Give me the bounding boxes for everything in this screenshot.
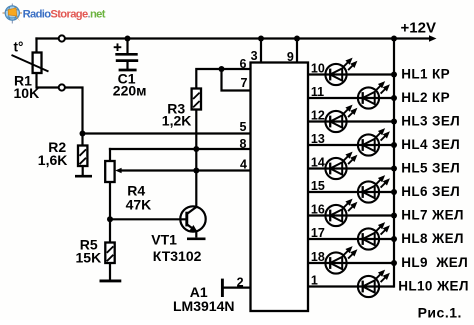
ground for pin 2 <box>221 279 224 297</box>
wire pin 16 row to LED HL7 and +12V bus <box>308 214 394 216</box>
LED HL3 <box>325 106 356 133</box>
LED HL5 <box>325 153 356 180</box>
LED HL1 <box>325 59 356 86</box>
svg-text:16: 16 <box>311 202 325 216</box>
capacitor C1 (polarized) <box>114 43 139 60</box>
svg-text:7: 7 <box>240 76 247 90</box>
node R4-R5 / VT1 base <box>107 216 113 222</box>
node pin 3 / top rail <box>258 36 264 42</box>
svg-text:HL1 КР: HL1 КР <box>401 66 450 81</box>
ground for C1 <box>119 69 137 72</box>
svg-text:15K: 15K <box>76 249 102 265</box>
node pin6-pin7 branch <box>219 66 225 72</box>
node R1-R2 / pin 5 <box>80 131 86 137</box>
svg-text:9: 9 <box>287 50 294 64</box>
node R3 / pin 8 <box>193 146 199 152</box>
junction node on bus row 9 <box>391 260 397 266</box>
ground for R2 <box>75 175 92 178</box>
svg-text:14: 14 <box>311 155 325 169</box>
node C1 / top rail <box>125 36 131 42</box>
junction node on bus row 2 <box>391 95 397 101</box>
svg-text:HL7 ЖЕЛ: HL7 ЖЕЛ <box>401 207 464 222</box>
node R3-VT1 / pin 4 <box>193 168 199 174</box>
svg-text:t°: t° <box>14 40 24 55</box>
ground for VT1 emitter <box>187 237 206 240</box>
LED HL10 <box>358 271 389 298</box>
svg-text:11: 11 <box>311 85 324 99</box>
LED HL6 <box>358 176 389 203</box>
wire pin 11 row to LED HL2 and +12V bus <box>308 97 394 99</box>
wire pin 1 row to LED HL10 and +12V bus <box>308 285 394 287</box>
svg-text:+12V: +12V <box>401 20 436 37</box>
wire +12V LED bus vertical <box>393 39 395 287</box>
svg-text:18: 18 <box>311 250 325 264</box>
svg-text:10: 10 <box>311 61 325 75</box>
svg-text:HL10 ЖЕЛ: HL10 ЖЕЛ <box>398 278 469 293</box>
wire R4 bottom lead to R5 <box>109 182 111 243</box>
junction node on bus row 5 <box>391 166 397 172</box>
junction node on bus row 4 <box>391 142 397 148</box>
LED HL9 <box>325 247 356 274</box>
svg-text:HL6 ЗЕЛ: HL6 ЗЕЛ <box>401 184 460 199</box>
resistor R1 (thermistor) <box>12 53 49 74</box>
svg-text:RadioStorage.net: RadioStorage.net <box>23 8 106 20</box>
svg-text:HL9 ЖЕЛ: HL9 ЖЕЛ <box>401 255 468 270</box>
wire pin 18 row to LED HL9 and +12V bus <box>308 262 394 264</box>
LED HL8 <box>358 223 389 250</box>
svg-text:12: 12 <box>311 108 325 122</box>
wire pin 9 lead <box>296 39 298 63</box>
svg-text:КТ3102: КТ3102 <box>153 248 202 264</box>
wire pin 15 row to LED HL6 and +12V bus <box>308 191 394 193</box>
svg-text:10K: 10K <box>14 85 40 101</box>
terminal (connector) on top rail <box>59 35 65 41</box>
svg-text:47K: 47K <box>126 197 152 213</box>
junction node on bus row 7 <box>391 213 397 219</box>
junction node on bus row 3 <box>391 119 397 125</box>
wire pin 13 row to LED HL4 and +12V bus <box>308 144 394 146</box>
resistor R5 <box>105 243 114 264</box>
wire pin 14 row to LED HL5 and +12V bus <box>308 167 394 169</box>
transistor VT1 (NPN) <box>180 206 205 237</box>
svg-text:17: 17 <box>311 226 325 240</box>
wire pin 4 line to R4 wiper <box>122 169 251 171</box>
junction node on bus row 6 <box>391 189 397 195</box>
svg-text:2: 2 <box>237 275 244 289</box>
wire pin 3 lead <box>260 39 262 63</box>
wire pin 8 line <box>110 148 251 150</box>
wire R3 top lead / pin 6 line <box>196 69 250 89</box>
svg-text:6: 6 <box>239 57 246 71</box>
wire C1 top lead <box>126 39 128 54</box>
junction node on bus row 1 <box>391 72 397 78</box>
wire R5 bottom lead to ground <box>109 263 111 280</box>
svg-text:220м: 220м <box>113 82 147 98</box>
svg-text:LM3914N: LM3914N <box>173 298 234 314</box>
svg-text:1,6K: 1,6K <box>38 152 68 168</box>
+12V supply arrow <box>394 35 437 41</box>
wire pin 2 lead to ground <box>222 287 250 289</box>
svg-text:HL8 ЖЕЛ: HL8 ЖЕЛ <box>401 231 464 246</box>
wire VT1 base line <box>110 218 187 220</box>
RadioStorage.net logo icon <box>3 4 23 24</box>
svg-text:4: 4 <box>240 157 247 171</box>
svg-text:13: 13 <box>311 132 325 146</box>
wire C1 bottom lead to ground <box>126 62 128 69</box>
wire pin 12 row to LED HL3 and +12V bus <box>308 120 394 122</box>
svg-text:8: 8 <box>239 137 246 151</box>
svg-text:Рис.1.: Рис.1. <box>418 304 462 320</box>
resistor R2 <box>78 146 87 167</box>
op-amp / IC A1 LM3914N body <box>251 63 309 312</box>
svg-text:HL4 ЗЕЛ: HL4 ЗЕЛ <box>401 137 460 152</box>
wire pin 7 branch <box>222 69 251 91</box>
wire R2 bottom lead to ground <box>82 166 84 175</box>
resistor R3 <box>192 89 201 110</box>
svg-text:15: 15 <box>311 179 325 193</box>
wire pin 5 line from R1/R2 node to IC <box>83 132 251 134</box>
wire R3 bottom lead to VT1 collector <box>195 110 197 208</box>
junction node on bus row 8 <box>391 236 397 242</box>
wire pin 10 row to LED HL1 and +12V bus <box>308 73 394 75</box>
LED HL7 <box>325 200 356 227</box>
resistor R4 (potentiometer) <box>105 161 121 182</box>
node pin 9 / top rail <box>294 36 300 42</box>
wire R1 bottom lead <box>37 73 83 146</box>
svg-text:3: 3 <box>251 49 258 63</box>
svg-text:HL2 КР: HL2 КР <box>401 90 450 105</box>
svg-text:5: 5 <box>239 120 246 134</box>
svg-text:VT1: VT1 <box>151 231 177 247</box>
wire pin 17 row to LED HL8 and +12V bus <box>308 238 394 240</box>
wire +12V top rail <box>37 37 395 39</box>
node bus / top rail <box>391 36 397 42</box>
svg-text:1,2K: 1,2K <box>162 113 192 129</box>
svg-text:HL3 ЗЕЛ: HL3 ЗЕЛ <box>401 113 460 128</box>
LED HL4 <box>358 129 389 156</box>
svg-text:1: 1 <box>311 273 318 287</box>
wire R4 top lead <box>109 149 111 161</box>
wire R1 top lead <box>35 39 37 53</box>
terminal (connector) on R1 lower wire <box>59 84 65 90</box>
svg-text:HL5 ЗЕЛ: HL5 ЗЕЛ <box>401 160 460 175</box>
LED HL2 <box>358 82 389 109</box>
ground for R5 <box>100 279 122 282</box>
